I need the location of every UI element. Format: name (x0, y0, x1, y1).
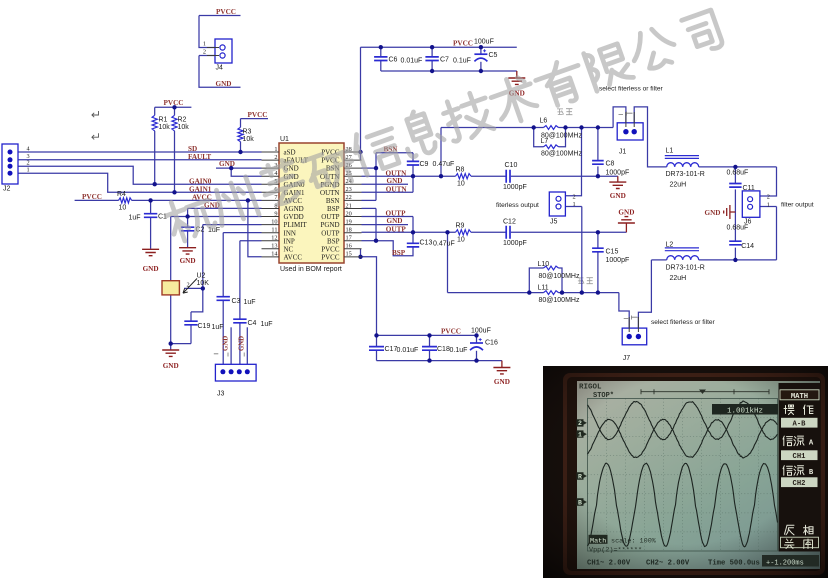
svg-text:C7: C7 (440, 57, 449, 64)
svg-text:1000pF: 1000pF (503, 184, 527, 191)
svg-text:aSD: aSD (284, 149, 296, 157)
svg-text:1: 1 (767, 201, 770, 208)
svg-text:15: 15 (346, 251, 352, 258)
svg-text:11: 11 (271, 226, 277, 233)
svg-text:L6: L6 (540, 118, 548, 125)
svg-text:BSP: BSP (327, 237, 340, 245)
svg-text:A: A (809, 439, 814, 447)
svg-text:21: 21 (346, 202, 352, 209)
svg-text:PGND: PGND (320, 221, 339, 229)
svg-text:B: B (578, 499, 582, 506)
svg-text:14: 14 (271, 251, 278, 258)
svg-text:fiterless output: fiterless output (496, 202, 539, 209)
svg-text:C15: C15 (606, 249, 619, 256)
svg-text:filter output: filter output (781, 202, 814, 209)
svg-text:Vpp(2)=******: Vpp(2)=****** (589, 547, 642, 555)
svg-text:J2: J2 (3, 186, 11, 193)
svg-text:19: 19 (346, 218, 352, 225)
svg-text:2: 2 (203, 49, 206, 56)
svg-text:GND: GND (387, 177, 403, 185)
svg-text:10: 10 (457, 237, 465, 244)
svg-text:1: 1 (573, 201, 576, 208)
svg-text:0.47uF: 0.47uF (433, 241, 455, 248)
svg-text:C14: C14 (741, 243, 754, 250)
svg-text:CH2~ 2.00V: CH2~ 2.00V (646, 559, 690, 567)
svg-text:BSN: BSN (326, 197, 340, 205)
svg-text:C8: C8 (606, 161, 615, 168)
svg-text:Math: Math (590, 537, 606, 545)
svg-text:Time 500.0us: Time 500.0us (708, 559, 760, 567)
svg-text:INN: INN (284, 229, 296, 237)
svg-text:C16: C16 (485, 340, 498, 347)
svg-text:L7: L7 (541, 138, 549, 145)
svg-text:16: 16 (346, 243, 352, 250)
svg-text:U2: U2 (197, 273, 206, 280)
svg-text:1: 1 (274, 146, 277, 153)
svg-text:GND: GND (494, 378, 510, 386)
svg-text:C5: C5 (489, 52, 498, 59)
svg-text:PVCC: PVCC (321, 253, 340, 261)
svg-text:12: 12 (271, 235, 277, 242)
svg-text:MATH: MATH (791, 393, 808, 401)
svg-text:20: 20 (346, 210, 352, 217)
svg-text:1000pF: 1000pF (606, 257, 630, 264)
svg-text:R8: R8 (456, 167, 465, 174)
svg-text:C12: C12 (503, 219, 516, 226)
svg-text:GND: GND (143, 265, 159, 273)
svg-text:GND: GND (219, 160, 235, 168)
svg-text:BSP: BSP (392, 249, 406, 257)
svg-text:1000pF: 1000pF (503, 240, 527, 247)
svg-text:GVDD: GVDD (284, 213, 304, 221)
svg-text:CH1~ 2.00V: CH1~ 2.00V (587, 559, 631, 567)
svg-text:0.47uF: 0.47uF (433, 161, 455, 168)
svg-text:AVCC: AVCC (284, 253, 303, 261)
svg-text:C18: C18 (437, 346, 450, 353)
svg-text:1uF: 1uF (244, 299, 256, 306)
svg-text:C11: C11 (743, 185, 755, 192)
svg-text:1: 1 (27, 167, 30, 174)
svg-text:18: 18 (346, 226, 352, 233)
svg-text:C10: C10 (505, 162, 518, 169)
svg-text:SD: SD (188, 145, 197, 153)
svg-text:22: 22 (346, 194, 352, 201)
svg-text:C6: C6 (389, 57, 398, 64)
svg-text:80@100MHz: 80@100MHz (539, 297, 580, 304)
svg-text:23: 23 (346, 186, 352, 193)
svg-text:OUTP: OUTP (386, 226, 407, 234)
svg-text:GND: GND (180, 257, 196, 265)
svg-text:GND: GND (610, 192, 626, 200)
svg-text:FAULT: FAULT (188, 153, 211, 161)
svg-text:0.1uF: 0.1uF (453, 58, 471, 65)
svg-text:0.01uF: 0.01uF (401, 58, 423, 65)
svg-text:1.001kHz: 1.001kHz (727, 407, 763, 415)
svg-text:80@100MHz: 80@100MHz (539, 273, 580, 280)
svg-text:CH2: CH2 (793, 480, 806, 488)
svg-text:GND: GND (705, 209, 721, 217)
svg-text:STOP*: STOP* (593, 392, 614, 400)
svg-text:C4: C4 (248, 320, 257, 327)
svg-text:17: 17 (346, 235, 352, 242)
svg-text:R3: R3 (243, 129, 252, 136)
svg-text:BSP: BSP (327, 205, 340, 213)
svg-text:2: 2 (573, 193, 576, 200)
svg-text:L2: L2 (666, 242, 674, 249)
svg-text:10: 10 (119, 205, 127, 212)
svg-text:J7: J7 (623, 355, 631, 362)
svg-text:GND: GND (223, 336, 230, 351)
svg-text:OUTP: OUTP (321, 229, 339, 237)
svg-text:2: 2 (187, 282, 190, 289)
svg-text:10k: 10k (243, 136, 255, 143)
svg-text:9: 9 (274, 210, 277, 217)
svg-text:J5: J5 (550, 219, 558, 226)
svg-text:U1: U1 (280, 136, 289, 143)
svg-text:L1: L1 (666, 148, 674, 155)
svg-text:0.68uF: 0.68uF (727, 170, 749, 177)
svg-text:10: 10 (457, 181, 465, 188)
svg-text:R9: R9 (456, 223, 465, 230)
svg-text:C3: C3 (232, 298, 241, 305)
svg-text:PVCC: PVCC (321, 245, 340, 253)
svg-text:J3: J3 (217, 391, 225, 398)
svg-text:GND: GND (618, 209, 634, 217)
svg-text:RIGOL: RIGOL (579, 384, 602, 392)
svg-text:INP: INP (284, 237, 295, 245)
svg-text:C19: C19 (198, 323, 211, 330)
svg-text:AGND: AGND (284, 205, 304, 213)
svg-text:10K: 10K (197, 280, 210, 287)
svg-text:1uF: 1uF (212, 324, 224, 331)
svg-text:Used in BOM report: Used in BOM report (280, 266, 342, 273)
svg-text:C17: C17 (385, 346, 398, 353)
svg-text:2: 2 (767, 194, 770, 201)
svg-text:CH1: CH1 (793, 453, 807, 461)
svg-text:100uF: 100uF (474, 39, 494, 46)
svg-text:L10: L10 (538, 261, 550, 268)
svg-text:+-1.200ms: +-1.200ms (766, 559, 804, 567)
svg-text:1uF: 1uF (129, 215, 141, 222)
svg-text:80@100MHz: 80@100MHz (541, 151, 582, 158)
svg-text:13: 13 (271, 243, 277, 250)
svg-text:OUTN: OUTN (386, 186, 408, 194)
svg-text:GND: GND (216, 80, 232, 88)
svg-text:1000pF: 1000pF (606, 170, 630, 177)
svg-text:PVCC: PVCC (441, 328, 461, 336)
svg-text:GND: GND (163, 362, 179, 370)
svg-text:scale: 100%: scale: 100% (611, 538, 657, 546)
svg-text:0.01uF: 0.01uF (397, 347, 419, 354)
svg-text:GAIN0: GAIN0 (189, 178, 212, 186)
svg-text:select fiterless or filter: select fiterless or filter (651, 319, 716, 326)
svg-text:DR73-101-R: DR73-101-R (666, 265, 705, 272)
svg-text:7: 7 (274, 194, 277, 201)
svg-text:1: 1 (578, 431, 582, 438)
svg-text:OUTP: OUTP (321, 213, 339, 221)
svg-text:2: 2 (27, 160, 30, 167)
svg-text:OUTN: OUTN (320, 189, 339, 197)
svg-text:22uH: 22uH (670, 182, 687, 189)
svg-text:R2: R2 (178, 117, 187, 124)
svg-text:J4: J4 (216, 65, 224, 72)
svg-text:R4: R4 (117, 191, 126, 198)
svg-text:NC: NC (284, 245, 294, 253)
svg-text:PVCC: PVCC (453, 40, 473, 48)
svg-text:B: B (809, 469, 814, 477)
svg-text:0.68uF: 0.68uF (727, 225, 749, 232)
svg-text:R: R (578, 473, 582, 480)
svg-text:PVCC: PVCC (82, 193, 102, 201)
svg-text:DR73-101-R: DR73-101-R (666, 171, 705, 178)
svg-text:L11: L11 (538, 285, 549, 292)
svg-text:10k: 10k (159, 124, 171, 131)
svg-text:R1: R1 (159, 117, 168, 124)
svg-text:PVCC: PVCC (216, 8, 236, 16)
svg-text:0.1uF: 0.1uF (450, 347, 468, 354)
svg-text:1: 1 (203, 41, 206, 48)
svg-text:10k: 10k (178, 124, 190, 131)
svg-text:GND: GND (239, 336, 246, 351)
svg-text:PVCC: PVCC (164, 99, 184, 107)
svg-text:2: 2 (578, 420, 582, 427)
svg-text:100uF: 100uF (471, 328, 491, 335)
svg-text:C9: C9 (420, 161, 429, 168)
svg-text:1uF: 1uF (261, 321, 273, 328)
svg-text:A-B: A-B (793, 421, 807, 429)
svg-text:PVCC: PVCC (248, 111, 268, 119)
svg-text:22uH: 22uH (670, 275, 687, 282)
svg-text:C13: C13 (420, 240, 433, 247)
svg-text:J1: J1 (619, 149, 627, 156)
svg-text:OUTN: OUTN (386, 169, 408, 177)
svg-text:GND: GND (387, 217, 403, 225)
svg-text:10: 10 (271, 218, 277, 225)
svg-text:PLIMIT: PLIMIT (284, 221, 308, 229)
svg-text:2: 2 (274, 154, 277, 161)
